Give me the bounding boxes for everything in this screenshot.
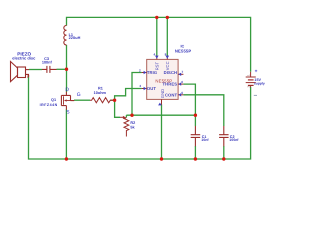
svg-text:D: D [65, 87, 69, 93]
wire drain node down to Q1 drain [66, 69, 68, 92]
wire OUT node down to R2 wiper [115, 100, 120, 117]
wire piezo plus to C3 [29, 69, 42, 71]
svg-text:6: 6 [181, 80, 183, 84]
junction drain node [65, 68, 68, 71]
label L1 220uH [69, 33, 81, 40]
battery minus mark [254, 94, 257, 96]
inductor L1 [64, 25, 67, 45]
wire timing node horizontal R2 top to C1 top [126, 114, 195, 116]
svg-text:+: + [255, 69, 258, 74]
U1 pin numbers [139, 53, 184, 95]
wire RST pin 4 to top rail [156, 17, 158, 56]
wire VCC pin 8 to top rail [166, 17, 168, 56]
label C2 100nf [229, 135, 239, 142]
svg-text:GND: GND [160, 89, 165, 98]
svg-text:G: G [77, 92, 81, 98]
resistor R1 [90, 98, 115, 103]
wire R1 right to OUT node junction [110, 99, 114, 101]
svg-text:100nf: 100nf [42, 61, 53, 65]
svg-text:10nf: 10nf [201, 138, 209, 142]
wire THRES pin 6 to timing node [183, 84, 195, 115]
svg-text:220uH: 220uH [69, 36, 81, 40]
label 15V supply [254, 78, 265, 86]
junction C1 bottom [194, 157, 197, 160]
U1 pin names [147, 61, 178, 98]
svg-text:100nf: 100nf [229, 138, 239, 142]
wire 555 OUT pin 3 jog to OUT node [115, 89, 142, 101]
label PIEZO electric disc [12, 52, 36, 61]
junction OUT node [113, 99, 116, 102]
svg-text:NE555P: NE555P [175, 49, 192, 54]
wire Q1 source down to bottom rail [65, 109, 67, 159]
U1 pin arrows [144, 56, 182, 106]
label Q1 IRFZ44N [40, 98, 58, 107]
svg-text:supply: supply [254, 81, 265, 85]
capacitor C2 [219, 126, 229, 146]
svg-text:RST: RST [154, 61, 159, 70]
svg-text:IRFZ44N: IRFZ44N [40, 103, 58, 107]
R2 wiper arrow [120, 116, 123, 118]
svg-text:Q1: Q1 [51, 98, 56, 102]
wire C2 bottom to rail [223, 146, 225, 159]
junction C2 bottom [222, 157, 225, 160]
transistor Q1 IRFZ44N [61, 92, 74, 110]
junction timing node left [130, 114, 133, 117]
wire ground rail: battery - down, bottom rail, up to piezo [29, 75, 251, 159]
wire 555 GND pin 1 down to rail [161, 104, 163, 159]
label C3 100nf [42, 57, 53, 65]
battery BT1 15V [246, 72, 256, 87]
wire R2 top hook [125, 115, 127, 117]
wire CONT pin 5 to C2 top [183, 95, 223, 126]
svg-text:8: 8 [165, 53, 167, 57]
wire Q1 gate to R1 [74, 99, 90, 101]
wire VCC top rail: L1 top to battery + [67, 17, 251, 71]
label C1 10nf [201, 135, 209, 142]
svg-text:2: 2 [139, 69, 141, 73]
svg-text:NE555P: NE555P [155, 79, 172, 84]
capacitor C3 [42, 66, 57, 73]
Q1 arrow [64, 99, 66, 101]
wire C1 top lead [194, 115, 196, 126]
svg-text:3: 3 [139, 84, 141, 88]
svg-text:5: 5 [181, 91, 183, 95]
label IC NE555P [175, 44, 192, 53]
wire C1 bottom to rail [194, 146, 196, 159]
svg-text:4: 4 [154, 53, 156, 57]
svg-text:CONT: CONT [165, 92, 178, 97]
svg-text:10ohm: 10ohm [94, 91, 107, 95]
svg-text:electric disc: electric disc [12, 56, 36, 61]
U1 pin stubs [142, 55, 184, 104]
wire C3 to drain node [57, 68, 67, 70]
label R2 5k [130, 121, 135, 129]
junction source bottom [65, 157, 68, 160]
svg-text:OUT: OUT [147, 86, 156, 91]
wire L1 bottom to drain node [66, 45, 68, 69]
junction timing node right [194, 114, 197, 117]
svg-text:VCC: VCC [165, 61, 170, 70]
op-amp U1 555 timer body [147, 59, 178, 99]
junction top rail pin8 [166, 16, 169, 19]
capacitor C1 [191, 126, 201, 146]
svg-text:7: 7 [182, 70, 184, 74]
junction gnd bottom [160, 157, 163, 160]
label R1 10ohm [94, 87, 107, 95]
wire TRIG pin 2 down to timing node [132, 73, 142, 116]
piezo BZ1 symbol [11, 62, 30, 82]
potentiometer R2 [124, 117, 129, 136]
junction top rail pin4 [155, 16, 158, 19]
